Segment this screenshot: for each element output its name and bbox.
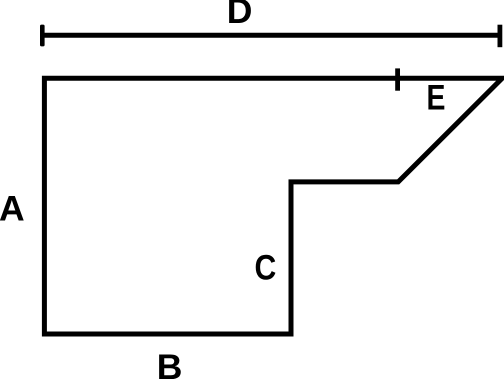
svg-text:B: B <box>157 347 183 379</box>
svg-text:D: D <box>227 0 253 31</box>
polygon outline (shape with edges A,B,C,D,E) <box>44 78 502 334</box>
label C <box>255 247 277 287</box>
dimension line left tick <box>40 25 45 47</box>
tick mark on top edge (start of E segment) <box>395 68 400 90</box>
svg-text:A: A <box>0 189 25 229</box>
dimension line D (horizontal measure bar) <box>42 33 501 38</box>
svg-text:E: E <box>427 77 446 117</box>
svg-text:C: C <box>255 247 277 287</box>
label E <box>427 77 446 117</box>
dimension line right tick <box>498 25 503 48</box>
